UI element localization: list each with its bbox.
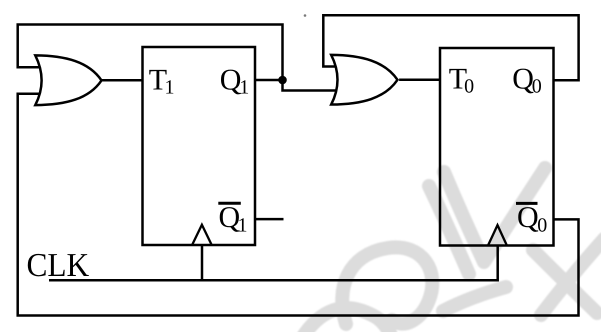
watermark digit 0 oval (342, 247, 432, 324)
wire: CLK branch up to FF1 clock (201, 245, 204, 280)
svg-text:0: 0 (537, 214, 547, 236)
wire: Q1-bar stub (256, 218, 284, 221)
or-gate OR2 (331, 55, 397, 105)
flip-flop U1 box (143, 47, 256, 245)
svg-text:Q: Q (517, 201, 539, 234)
watermark digit 2 stroke a (429, 186, 469, 274)
wire: Q1 feedback from junction up over to OR1 top input (18, 25, 283, 81)
clock triangle U1 (192, 225, 211, 245)
flip-flop U2 box (440, 48, 554, 246)
watermark digit 4 stem (541, 239, 601, 315)
stray speck (304, 14, 307, 17)
wire: CLK rail with rise to FF2 clock (49, 246, 498, 281)
wire: OR1 output to T1 (102, 79, 143, 82)
wire: junction jog down to OR2 lower input (283, 80, 337, 91)
wire: Q0 feedback over top to OR2 upper input (323, 15, 578, 80)
svg-text:1: 1 (238, 214, 248, 236)
svg-text:CLK: CLK (27, 247, 90, 284)
wire: OR2 output to T0 (399, 79, 440, 82)
watermark 2024 (300, 168, 601, 332)
svg-text:1: 1 (239, 77, 249, 99)
watermark digit 2 top arc (300, 308, 392, 332)
wire: Q1 output to junction (255, 79, 283, 82)
overline of Q1-bar (218, 202, 241, 205)
svg-text:0: 0 (464, 76, 474, 98)
watermark digit 4 diagonal (533, 250, 597, 313)
svg-text:0: 0 (532, 76, 542, 98)
junction dot node Q1 (278, 76, 287, 85)
or-gate OR1 (35, 55, 101, 105)
watermark digit 2 tail (443, 287, 506, 311)
clock triangle U2 (488, 225, 506, 245)
overline of Q0-bar (516, 202, 538, 205)
svg-text:1: 1 (165, 77, 175, 99)
watermark digit 2 stroke b (444, 168, 545, 262)
wire: Q0-bar net: OR1 lower input, down left side, across bottom, up right side to Q0-bar stub (18, 94, 579, 316)
